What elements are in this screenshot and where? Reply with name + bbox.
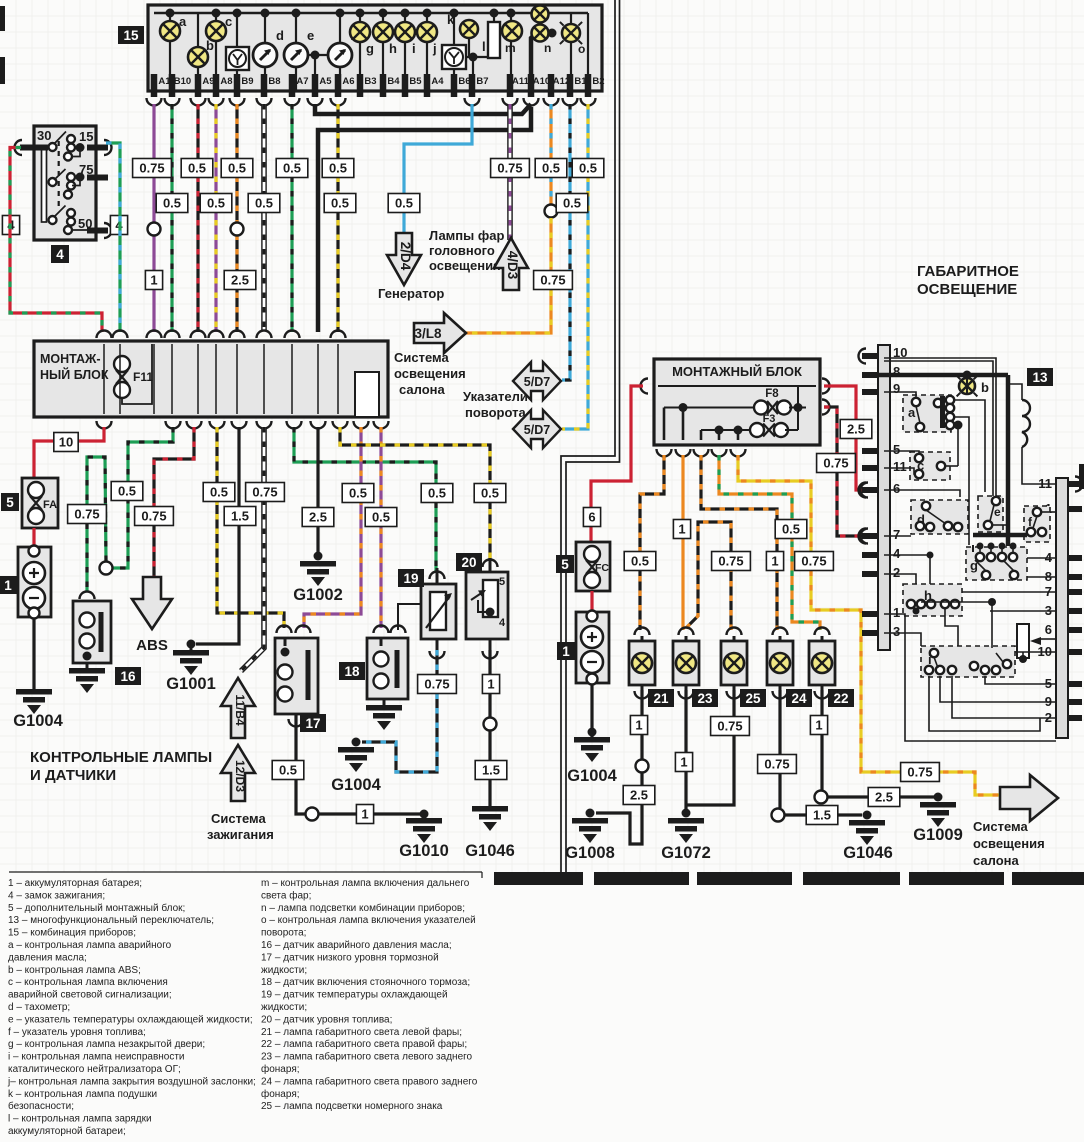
svg-text:поворота;: поворота; [261, 928, 306, 939]
svg-text:o – контрольная лампа включени: o – контрольная лампа включения указател… [261, 915, 476, 926]
svg-text:0.5: 0.5 [782, 522, 800, 537]
svg-text:a: a [179, 14, 187, 29]
wire p2 orange to lamp 23 [681, 455, 684, 630]
svg-text:F3: F3 [763, 413, 776, 425]
left connector bar [878, 345, 890, 650]
svg-text:m: m [505, 41, 516, 55]
switch slider [42, 149, 47, 222]
block inner wiring [664, 407, 754, 409]
svg-text:21 – лампа габаритного света л: 21 – лампа габаритного света левой фары; [261, 1026, 462, 1038]
svg-text:1: 1 [562, 644, 570, 659]
svg-text:0.75: 0.75 [907, 765, 932, 780]
arrow 3/L8 salon light system [414, 313, 466, 353]
svg-text:o: o [578, 42, 585, 56]
link e-f with node A5 [308, 54, 328, 56]
wire B1 blue-black [562, 104, 570, 380]
svg-text:G1004: G1004 [331, 776, 381, 794]
svg-text:b – контрольная лампа ABS;: b – контрольная лампа ABS; [8, 965, 141, 976]
page edge marks [0, 6, 5, 31]
svg-text:4: 4 [893, 546, 901, 561]
multifunction switch 13 label [1027, 368, 1053, 386]
ground G1001 [173, 650, 209, 656]
svg-text:5: 5 [893, 442, 900, 457]
svg-text:0.5: 0.5 [631, 554, 649, 569]
svg-text:1.5: 1.5 [231, 509, 249, 524]
gauge f fuel [339, 13, 341, 90]
svg-text:13 – многофункциональный перек: 13 – многофункциональный переключатель; [8, 914, 214, 926]
svg-text:20: 20 [461, 555, 476, 570]
arrow ABS [132, 577, 172, 629]
wire black-yellow block to sensor 17 left [217, 427, 284, 628]
svg-text:17 – датчик низкого уровня тор: 17 – датчик низкого уровня тормозной [261, 952, 439, 963]
thick bus pin 8 [878, 373, 1008, 378]
svg-text:МОНТАЖ-: МОНТАЖ- [40, 352, 101, 366]
wire red 2.5 block to pin 6 [824, 386, 864, 490]
svg-text:22 – лампа габаритного света п: 22 – лампа габаритного света правой фары… [261, 1038, 467, 1050]
svg-text:6: 6 [1045, 622, 1052, 637]
block top hooks [97, 331, 112, 338]
svg-text:0.5: 0.5 [395, 196, 413, 211]
lamp k [453, 13, 455, 45]
svg-text:B7: B7 [476, 76, 488, 87]
svg-text:d – тахометр;: d – тахометр; [8, 1002, 70, 1013]
svg-text:0.75: 0.75 [718, 554, 743, 569]
svg-text:G1009: G1009 [913, 826, 963, 844]
wire B10 green-black [170, 104, 173, 332]
arrow 5/D7 first [513, 362, 561, 400]
wire red feed block to FC [591, 386, 643, 542]
svg-text:A6: A6 [342, 76, 354, 87]
lamp j [426, 13, 428, 90]
svg-text:i – контрольная лампа неисправ: i – контрольная лампа неисправности [8, 1052, 185, 1063]
svg-text:23 – лампа габаритного света л: 23 – лампа габаритного света левого задн… [261, 1051, 473, 1063]
ground G1046 left [472, 806, 508, 812]
svg-text:1: 1 [150, 273, 157, 288]
cluster internal bus [154, 12, 588, 14]
block bottom hooks [97, 421, 112, 429]
contact box i [921, 646, 1015, 677]
lamps n [531, 34, 535, 74]
svg-text:1: 1 [361, 807, 368, 822]
svg-text:19 – датчик температуры охлажд: 19 – датчик температуры охлаждающей [261, 990, 448, 1001]
svg-text:23: 23 [697, 691, 713, 706]
wire l to B7 [466, 56, 488, 58]
label 4 black [51, 245, 69, 263]
svg-text:15: 15 [123, 28, 139, 43]
lamp h [382, 13, 384, 90]
svg-text:0.5: 0.5 [188, 161, 206, 176]
svg-text:Генератор: Генератор [378, 286, 444, 301]
svg-text:0.75: 0.75 [540, 273, 565, 288]
wire p1 black-orange to lamp 21 [640, 455, 664, 630]
right connector bar [1056, 478, 1068, 738]
ignition switch box 4 [34, 126, 96, 240]
svg-text:j: j [432, 41, 437, 56]
svg-text:КОНТРОЛЬНЫЕ ЛАМПЫ: КОНТРОЛЬНЫЕ ЛАМПЫ [30, 749, 212, 766]
svg-text:ГАБАРИТНОЕ: ГАБАРИТНОЕ [917, 263, 1019, 280]
ground G1008 [572, 818, 608, 824]
wire red-green ignition 30 feed [10, 148, 102, 333]
wire 17 to G1010 [289, 719, 304, 727]
fuse FA box [22, 478, 58, 528]
arrow 12/D3 ignition system [221, 745, 255, 801]
gauge B9 (voltmeter box) [236, 13, 238, 90]
svg-text:1: 1 [815, 718, 822, 733]
svg-text:1: 1 [4, 578, 12, 593]
svg-text:15: 15 [79, 129, 93, 144]
resistor l [493, 13, 495, 22]
lamp g [359, 13, 361, 90]
gauge e temperature [295, 13, 297, 90]
svg-text:Система: Система [211, 811, 266, 826]
svg-text:l: l [482, 39, 486, 54]
wire red to FA fuse [34, 427, 104, 478]
wire black-red block to pin 7 [824, 407, 864, 536]
rail A5 to A10 [315, 104, 531, 114]
wire B2 blue-yellow [562, 104, 588, 429]
sensor 18 parking brake [374, 626, 389, 634]
wire FC to battery right [590, 591, 593, 612]
svg-text:0.75: 0.75 [424, 677, 449, 692]
svg-text:G1046: G1046 [843, 844, 893, 862]
ground G1009 [920, 802, 956, 808]
svg-text:e: e [994, 505, 1001, 519]
wire A9 black-red [196, 104, 199, 332]
ground G1010 [406, 818, 442, 824]
svg-text:И ДАТЧИКИ: И ДАТЧИКИ [30, 767, 116, 784]
svg-text:0.75: 0.75 [74, 507, 99, 522]
svg-text:головного: головного [429, 243, 495, 258]
svg-text:12/D3: 12/D3 [233, 760, 247, 792]
svg-text:0.5: 0.5 [331, 196, 349, 211]
switch terminal 75 stub [87, 175, 108, 181]
svg-text:салона: салона [973, 853, 1019, 868]
svg-text:0.5: 0.5 [349, 486, 367, 501]
instrument cluster box 15 [148, 5, 602, 91]
svg-text:1.5: 1.5 [813, 808, 831, 823]
svg-text:жидкости;: жидкости; [261, 965, 307, 976]
svg-text:2.5: 2.5 [231, 273, 249, 288]
svg-text:j– контрольная лампа закрытия: j– контрольная лампа закрытия воздушной … [7, 1076, 256, 1087]
svg-text:G1072: G1072 [661, 844, 711, 862]
svg-text:6: 6 [893, 481, 900, 496]
svg-text:Лампы фар: Лампы фар [429, 228, 504, 243]
svg-text:2: 2 [893, 565, 900, 580]
wire 20 to G1046 [483, 651, 498, 659]
gauge d tachometer [264, 13, 266, 90]
switch terminal 50 stub [87, 228, 108, 234]
svg-text:k: k [447, 12, 455, 27]
ground G1004 left [16, 689, 52, 695]
svg-text:16: 16 [120, 669, 136, 684]
block bus [658, 385, 816, 387]
svg-text:1: 1 [893, 605, 900, 620]
svg-text:24 – лампа габаритного света п: 24 – лампа габаритного света правого зад… [261, 1075, 478, 1087]
left bar pins [862, 353, 878, 359]
svg-text:0.5: 0.5 [372, 510, 390, 525]
wire A12 orange-yellow lower to 3/L8 [466, 218, 551, 333]
svg-text:освещения: освещения [394, 366, 466, 381]
svg-text:A5: A5 [319, 76, 332, 87]
ground of sensor 16 [69, 668, 105, 674]
wire lamp21 to G1008 [596, 690, 642, 844]
gauge B6 fuel sender box [442, 45, 466, 69]
svg-text:0.5: 0.5 [207, 196, 225, 211]
potentiometer resistor [1017, 624, 1029, 658]
svg-text:2.5: 2.5 [630, 788, 648, 803]
svg-text:0.75: 0.75 [252, 485, 277, 500]
svg-text:5: 5 [499, 576, 505, 588]
svg-text:Система: Система [394, 350, 449, 365]
switch contact group 75 [49, 178, 57, 186]
svg-text:d: d [276, 28, 284, 43]
wire green-black from block to joint [113, 427, 173, 568]
svg-text:15 – комбинация приборов;: 15 – комбинация приборов; [8, 927, 136, 939]
svg-text:20 – датчик уровня топлива;: 20 – датчик уровня топлива; [261, 1014, 392, 1025]
svg-text:0.75: 0.75 [497, 161, 522, 176]
contact column [946, 396, 954, 404]
battery 1 right [576, 612, 609, 683]
svg-text:21: 21 [653, 691, 669, 706]
svg-text:18: 18 [344, 664, 360, 679]
svg-text:A8: A8 [220, 76, 232, 87]
wire 19 to ground G1004 [430, 651, 445, 659]
svg-text:g: g [366, 41, 374, 56]
svg-text:11: 11 [893, 459, 907, 474]
svg-text:0.5: 0.5 [118, 484, 136, 499]
svg-text:c – контрольная лампа включени: c – контрольная лампа включения [8, 977, 168, 988]
svg-text:10: 10 [59, 435, 73, 450]
wire purple-orange to 18 left [379, 427, 382, 628]
svg-text:4/D3: 4/D3 [505, 251, 520, 280]
ground G1004 right [574, 737, 610, 743]
svg-text:G1004: G1004 [567, 767, 617, 785]
F8 fuse [754, 401, 768, 415]
wire A6 black-yellow [336, 104, 339, 332]
svg-text:аккумуляторной батареи;: аккумуляторной батареи; [8, 1125, 126, 1137]
svg-text:0.75: 0.75 [823, 456, 848, 471]
svg-text:a – контрольная лампа аварийно: a – контрольная лампа аварийного [8, 940, 172, 951]
svg-text:9: 9 [893, 381, 900, 396]
wire A1 purple [152, 104, 155, 332]
svg-text:1: 1 [635, 718, 642, 733]
switch interior connection mesh [884, 535, 911, 537]
svg-text:A10: A10 [533, 76, 550, 87]
lamp c [215, 13, 217, 90]
svg-text:0.75: 0.75 [801, 554, 826, 569]
svg-text:Указатели: Указатели [463, 389, 528, 404]
svg-text:5: 5 [561, 557, 569, 572]
svg-text:0.75: 0.75 [717, 719, 742, 734]
svg-text:фонаря;: фонаря; [261, 1063, 300, 1075]
18 right pin link [398, 604, 421, 630]
wire white-black to 11/B4 [241, 427, 264, 671]
svg-text:m – контрольная лампа включени: m – контрольная лампа включения дальнего [261, 878, 470, 889]
wire p4 orange-green to lamp 22 [719, 455, 820, 630]
wire size labels row2 [156, 194, 188, 213]
svg-text:МОНТАЖНЫЙ БЛОК: МОНТАЖНЫЙ БЛОК [672, 364, 802, 379]
ground G1004 mid [338, 747, 374, 753]
svg-text:6: 6 [588, 510, 595, 525]
switch contact group 30-15 [49, 143, 57, 151]
wire p3 black-orange to lamp 24 [701, 455, 777, 630]
svg-text:0.5: 0.5 [255, 196, 273, 211]
wire FA to battery [32, 528, 35, 547]
svg-text:30: 30 [37, 128, 51, 143]
arrow 11/B4 ignition system [221, 678, 255, 738]
ground of sensor 18 [383, 699, 386, 705]
svg-text:n – лампа подсветки комбинации: n – лампа подсветки комбинации приборов; [261, 902, 465, 914]
svg-text:1: 1 [680, 755, 687, 770]
svg-text:Система: Система [973, 819, 1028, 834]
labels 1 and 2.5 [145, 271, 162, 290]
svg-text:3: 3 [893, 624, 900, 639]
svg-text:G1010: G1010 [399, 842, 449, 860]
section divider rails [561, 0, 615, 872]
svg-text:0.5: 0.5 [481, 486, 499, 501]
sensor 19 coolant temperature [430, 572, 445, 579]
contact box h [903, 584, 962, 616]
wire lamp25 join [686, 690, 734, 805]
svg-text:11/B4: 11/B4 [233, 694, 247, 726]
svg-text:B8: B8 [268, 76, 280, 87]
svg-text:освещения: освещения [973, 836, 1045, 851]
legend top rule [9, 871, 482, 873]
wire p5 yellow-orange to salon system [738, 455, 1000, 795]
svg-text:2.5: 2.5 [875, 790, 893, 805]
svg-text:25: 25 [745, 691, 761, 706]
svg-text:1 – аккумуляторная батарея;: 1 – аккумуляторная батарея; [8, 877, 142, 889]
pin stubs [151, 74, 158, 97]
svg-text:0.5: 0.5 [428, 486, 446, 501]
lamp i [404, 13, 406, 90]
wire B7 blue [404, 104, 472, 237]
svg-text:17: 17 [305, 716, 320, 731]
relay core [940, 396, 945, 428]
connector rings on wires [148, 223, 161, 236]
svg-text:салона: салона [399, 382, 445, 397]
svg-text:G1004: G1004 [13, 712, 63, 730]
svg-text:k – контрольная лампа подушки: k – контрольная лампа подушки [8, 1089, 157, 1100]
jumper lamp23-lamp25 black-orange [686, 522, 731, 630]
svg-text:7: 7 [893, 527, 900, 542]
svg-text:зажигания: зажигания [207, 827, 274, 842]
svg-text:2/D4: 2/D4 [398, 242, 413, 271]
svg-text:4: 4 [56, 247, 64, 262]
wire B9 black-orange [235, 104, 238, 332]
pin 10 double line [884, 358, 996, 496]
lamp o [570, 13, 572, 90]
wire black-red to ABS [154, 427, 194, 577]
lamp a [169, 13, 171, 90]
svg-text:19: 19 [403, 571, 418, 586]
svg-text:5: 5 [6, 495, 14, 510]
coil symbol [1022, 400, 1030, 447]
svg-text:i: i [412, 41, 416, 56]
wire A8 purple-yellow [214, 104, 217, 332]
svg-text:B5: B5 [409, 76, 422, 87]
svg-text:G1008: G1008 [565, 844, 615, 862]
svg-text:5/D7: 5/D7 [524, 375, 550, 389]
fuse FC box [576, 542, 610, 591]
connector on A12 [545, 205, 558, 218]
svg-text:0.5: 0.5 [542, 161, 560, 176]
wire black 1.5 to G1001 [196, 427, 239, 644]
svg-text:поворота: поворота [465, 405, 526, 420]
sensor 20 fuel level [483, 560, 498, 567]
svg-text:5 – дополнительный монтажный б: 5 – дополнительный монтажный блок; [8, 902, 185, 914]
arrow 5/D7 second [513, 410, 561, 448]
svg-text:2.5: 2.5 [309, 510, 327, 525]
svg-text:0.5: 0.5 [163, 196, 181, 211]
arrow 2/D4 generator [387, 233, 421, 285]
block bottom hooks right [657, 449, 672, 457]
wire black-yellow block to sensor 20 [340, 427, 490, 560]
svg-text:1: 1 [771, 554, 778, 569]
svg-text:g – контрольная лампа незакрыт: g – контрольная лампа незакрытой двери; [8, 1039, 205, 1050]
svg-text:0.75: 0.75 [764, 757, 789, 772]
fuse F11 [114, 356, 130, 372]
sensor 17 brake fluid level [277, 626, 292, 634]
arrow 4/D3 headlamps [494, 238, 528, 290]
svg-text:0.75: 0.75 [141, 509, 166, 524]
bus right end to B2 [587, 13, 589, 90]
svg-text:e: e [307, 28, 314, 43]
svg-text:F8: F8 [765, 388, 779, 400]
svg-text:каталитического нейтрализатора: каталитического нейтрализатора ОГ; [8, 1064, 181, 1075]
svg-text:B9: B9 [241, 76, 253, 87]
svg-text:l – контрольная лампа зарядки: l – контрольная лампа зарядки [8, 1114, 152, 1125]
svg-text:4 – замок зажигания;: 4 – замок зажигания; [8, 890, 105, 901]
svg-text:22: 22 [833, 691, 848, 706]
svg-text:0.75: 0.75 [139, 161, 164, 176]
svg-text:A4: A4 [431, 76, 444, 87]
wire A7 green-black [290, 104, 293, 332]
svg-text:аварийной световой сигнализаци: аварийной световой сигнализации; [8, 990, 172, 1001]
svg-text:c: c [225, 14, 232, 29]
svg-text:24: 24 [791, 691, 807, 706]
label 0.75 on A12 lower [534, 271, 573, 290]
wire lamp24 to G1046 [778, 690, 781, 808]
svg-text:0.5: 0.5 [579, 161, 597, 176]
montage block box [34, 341, 388, 417]
svg-text:G1046: G1046 [465, 842, 515, 860]
svg-text:A11: A11 [512, 76, 530, 87]
contact box c [910, 452, 950, 480]
sensor 16 [73, 601, 111, 663]
lamp b [197, 13, 199, 90]
svg-text:B2: B2 [592, 76, 604, 87]
svg-text:F11: F11 [133, 370, 153, 384]
wire purple-orange to 17 right [304, 427, 361, 628]
svg-text:B4: B4 [387, 76, 400, 87]
svg-text:0.5: 0.5 [283, 161, 301, 176]
block pass-through lines [103, 344, 105, 414]
svg-text:освещения: освещения [429, 258, 501, 273]
ground G1072 [668, 818, 704, 824]
svg-text:ОСВЕЩЕНИЕ: ОСВЕЩЕНИЕ [917, 281, 1017, 298]
svg-text:фонаря;: фонаря; [261, 1088, 300, 1100]
svg-text:безопасности;: безопасности; [8, 1100, 74, 1112]
lamps 21 23 25 24 22 [635, 628, 650, 635]
svg-text:НЫЙ БЛОК: НЫЙ БЛОК [40, 367, 109, 382]
wire green-black to sensor 16 [87, 457, 106, 592]
svg-text:5/D7: 5/D7 [524, 423, 550, 437]
svg-text:0.5: 0.5 [563, 196, 581, 211]
label 4 left [2, 216, 19, 235]
wire green-black block to sensor 19 [294, 427, 436, 572]
block tunnel rect [355, 372, 379, 417]
